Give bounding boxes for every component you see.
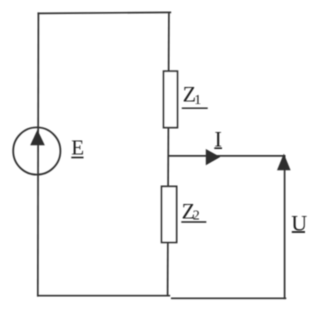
svg-text:2: 2 xyxy=(193,209,200,224)
svg-text:E: E xyxy=(71,136,84,160)
svg-text:1: 1 xyxy=(194,93,201,108)
